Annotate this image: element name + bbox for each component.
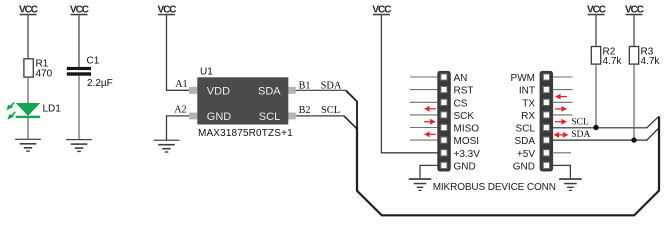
svg-text:2.2µF: 2.2µF	[87, 78, 113, 89]
wire VCC to R3	[633, 15, 635, 46]
wire SCL tap from bus to right header	[552, 116, 659, 127]
arrow in MOSI	[424, 131, 436, 137]
svg-text:A1: A1	[175, 79, 187, 90]
svg-text:MOSI: MOSI	[454, 136, 480, 147]
svg-text:A2: A2	[174, 105, 186, 116]
header J1 pin labels	[454, 73, 481, 172]
ground for right header	[559, 178, 582, 191]
svg-text:SCL: SCL	[259, 111, 280, 123]
svg-text:INT: INT	[519, 86, 535, 97]
svg-text:VDD: VDD	[207, 85, 230, 97]
junction on SCL	[593, 125, 598, 130]
wire TX stub	[552, 101, 573, 103]
bus sweep around bottom	[357, 116, 659, 215]
wire R3 to SDA net	[633, 64, 635, 140]
arrow in SCK	[424, 106, 436, 112]
arrow out MISO	[424, 119, 436, 125]
wire VCC4 down to +3.3V pin	[381, 15, 437, 153]
svg-text:+3.3V: +3.3V	[454, 149, 481, 160]
svg-text:TX: TX	[522, 98, 535, 109]
wire A2 GND pin to ground	[167, 116, 190, 140]
header J1 pads	[438, 71, 450, 171]
ground for left header	[409, 178, 432, 191]
svg-text:4.7k: 4.7k	[603, 56, 623, 67]
wire RST stub	[410, 89, 438, 91]
svg-text:SDA: SDA	[514, 136, 535, 147]
power VCC net 2	[70, 4, 89, 15]
svg-text:SCL: SCL	[321, 105, 340, 116]
wire AN stub	[410, 76, 438, 78]
header J2 pads	[541, 71, 553, 171]
wire SDA tap from bus to right header	[552, 128, 659, 140]
arrow bidir SDA	[554, 132, 569, 138]
wire INT stub	[552, 89, 573, 91]
svg-text:U1: U1	[200, 67, 213, 78]
svg-text:+5V: +5V	[517, 149, 535, 160]
wire R2 to SCL net	[595, 64, 597, 127]
ground under C1	[66, 139, 92, 152]
header J1 bar	[437, 71, 451, 172]
sensor U1 MAX31875 body	[197, 77, 288, 124]
ground under LD1	[15, 139, 41, 152]
resistor R2	[591, 47, 600, 65]
power VCC net 4	[372, 4, 391, 15]
wire PWM stub	[552, 76, 573, 78]
svg-text:MAX31875R0TZS+1: MAX31875R0TZS+1	[198, 128, 293, 139]
svg-text:SCL: SCL	[571, 116, 589, 127]
wire SCL from B2 into bus	[296, 115, 344, 117]
svg-text:470: 470	[36, 68, 53, 79]
svg-text:4.7k: 4.7k	[641, 56, 661, 67]
svg-text:MISO: MISO	[454, 124, 480, 135]
wire VCC to R2	[595, 15, 597, 46]
svg-text:GND: GND	[207, 111, 232, 123]
arrow in RX	[555, 106, 567, 112]
wire VCC3 down to VDD pin A1	[167, 15, 190, 90]
IC U1 pin stubs	[189, 87, 197, 94]
wire C1 to ground	[78, 76, 80, 140]
wire VCC to C1	[78, 15, 80, 67]
svg-text:SCL: SCL	[516, 124, 536, 135]
wire RX stub	[552, 114, 573, 116]
svg-text:RST: RST	[454, 86, 474, 97]
svg-text:B2: B2	[299, 105, 311, 116]
wire MOSI stub	[410, 139, 438, 141]
power VCC net 6	[625, 4, 644, 15]
svg-text:RX: RX	[521, 111, 535, 122]
power VCC net 5	[587, 4, 606, 15]
wire GND pin to ground	[552, 165, 571, 178]
arrow in SCL	[555, 119, 567, 125]
wire SDA from B1 into bus	[296, 89, 346, 91]
svg-text:AN: AN	[454, 73, 468, 84]
capacitor C1	[67, 67, 91, 70]
resistor R1	[24, 59, 33, 77]
header J2 bar	[540, 71, 554, 172]
junction on SDA	[631, 137, 636, 142]
svg-text:SDA: SDA	[571, 129, 590, 140]
wire GND pin to ground	[420, 165, 438, 178]
svg-text:CS: CS	[454, 98, 468, 109]
svg-text:SCK: SCK	[454, 111, 475, 122]
wire MISO stub	[410, 127, 438, 129]
svg-text:MIKROBUS DEVICE CONN: MIKROBUS DEVICE CONN	[433, 182, 556, 193]
wire SCK stub	[410, 114, 438, 116]
svg-text:GND: GND	[513, 161, 535, 172]
wire CS stub	[410, 101, 438, 103]
wire LD1 to ground	[27, 118, 29, 139]
svg-text:SDA: SDA	[258, 85, 281, 97]
header J2 pin labels	[511, 73, 536, 172]
wire +5V stub	[552, 152, 572, 154]
resistor R3	[629, 47, 638, 65]
svg-text:GND: GND	[454, 161, 476, 172]
power VCC net 1	[19, 4, 38, 15]
arrow out TX	[555, 94, 567, 100]
svg-text:C1: C1	[87, 56, 100, 67]
power VCC net 3	[158, 4, 177, 15]
ground under U1	[154, 140, 180, 153]
wire R1 to LD1	[27, 77, 29, 103]
wire VCC to R1	[27, 15, 29, 59]
svg-text:LD1: LD1	[43, 103, 62, 114]
svg-text:PWM: PWM	[511, 73, 535, 84]
LED LD1	[6, 103, 61, 120]
